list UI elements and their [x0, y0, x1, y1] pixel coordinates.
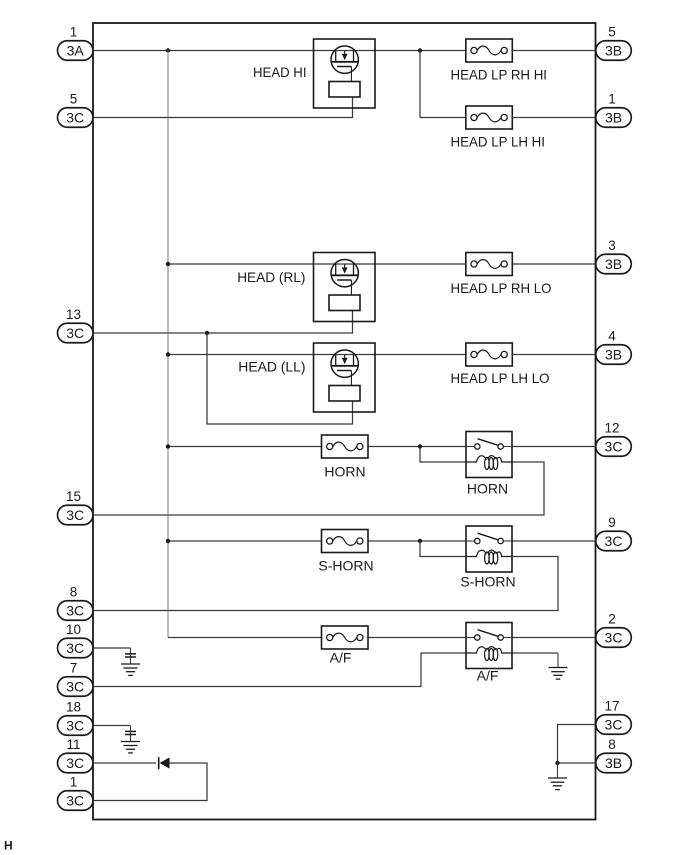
svg-text:3B: 3B — [605, 43, 622, 59]
svg-text:8: 8 — [70, 584, 78, 599]
wire A/F fuse to relay — [368, 637, 466, 639]
svg-text:A/F: A/F — [477, 668, 499, 684]
terminal 3B pin 5 — [596, 24, 632, 60]
svg-text:S-HORN: S-HORN — [318, 558, 373, 574]
fuse A/F — [322, 626, 369, 666]
svg-text:3C: 3C — [66, 325, 84, 341]
terminal 3C pin 18 — [58, 699, 94, 735]
svg-text:15: 15 — [66, 489, 81, 504]
svg-text:3B: 3B — [605, 256, 622, 272]
svg-text:17: 17 — [604, 698, 619, 713]
node bus tap HEAD RL — [166, 262, 170, 266]
wire vertical bus from 3A feed — [167, 51, 169, 638]
svg-text:3C: 3C — [66, 603, 84, 619]
svg-text:5: 5 — [70, 91, 78, 106]
wire fuse RH HI to terminal 5 3B — [512, 50, 596, 52]
wire HEAD HI coil return to terminal 5 3C — [93, 97, 353, 118]
diode D1 — [159, 757, 170, 769]
node fuse branch tap — [418, 48, 422, 52]
wire HORN fuse to relay — [368, 446, 466, 448]
wire terminal 11 3C to diode — [93, 762, 156, 764]
svg-text:HEAD (RL): HEAD (RL) — [237, 269, 305, 285]
terminal 3C pin 12 — [596, 420, 632, 456]
wire HORN relay to terminal 12 3C — [512, 446, 596, 448]
svg-text:3C: 3C — [66, 755, 84, 771]
fuse S-HORN — [318, 530, 373, 574]
fuse HEAD LP RH LO — [451, 253, 552, 297]
wire S-HORN coil feed — [420, 541, 466, 557]
svg-text:3A: 3A — [67, 43, 85, 59]
wire terminal 18 3C to ground — [93, 725, 131, 727]
svg-text:3C: 3C — [66, 718, 84, 734]
ground terminal 18 — [121, 726, 140, 753]
svg-text:13: 13 — [66, 307, 81, 322]
relay HORN — [466, 432, 512, 478]
wire HEAD RL row — [168, 263, 466, 265]
svg-text:9: 9 — [608, 515, 616, 530]
ground A/F relay coil — [549, 653, 568, 679]
svg-text:S-HORN: S-HORN — [460, 574, 515, 590]
wire A/F coil feed from terminal 7 3C — [93, 653, 466, 687]
svg-text:3C: 3C — [66, 640, 84, 656]
wire A/F coil return to ground — [512, 652, 558, 654]
svg-text:3B: 3B — [605, 347, 622, 363]
terminal 3C pin 1b — [58, 774, 94, 810]
wire bus to S-HORN fuse — [168, 540, 322, 542]
svg-text:18: 18 — [66, 699, 81, 714]
svg-text:5: 5 — [608, 24, 616, 39]
ground terminal 10 — [121, 648, 140, 675]
wire terminal 13 3C to HEAD RL coil — [93, 311, 353, 334]
wire terminal 8 3B to ground node — [558, 762, 596, 764]
wire fuse RH LO to terminal 3 3B — [512, 263, 596, 265]
relay box border frame — [93, 23, 596, 820]
semiconductor relay HEAD (LL) — [314, 343, 376, 412]
svg-text:3C: 3C — [605, 630, 623, 646]
svg-text:HEAD (LL): HEAD (LL) — [238, 359, 305, 375]
semiconductor relay HEAD HI — [314, 39, 376, 108]
wire terminal 17 3C to ground node — [558, 725, 596, 764]
terminal 3C pin 17 — [596, 698, 632, 734]
node HORN coil tap — [418, 444, 422, 448]
svg-text:3C: 3C — [605, 533, 623, 549]
terminal 3B pin 8 — [596, 737, 632, 773]
wire HORN coil return to terminal 15 3C — [93, 462, 544, 515]
terminal 3C pin 11 — [58, 737, 94, 773]
wire LH HI fuse row — [420, 117, 466, 119]
svg-text:3C: 3C — [66, 507, 84, 523]
fuse HORN — [322, 435, 369, 480]
terminal 3C pin 15 — [58, 489, 94, 525]
fuse HEAD LP LH HI — [451, 106, 546, 150]
terminal 3C pin 8 — [58, 584, 94, 620]
svg-text:HEAD LP LH HI: HEAD LP LH HI — [451, 134, 546, 150]
svg-text:HEAD HI: HEAD HI — [253, 64, 307, 80]
svg-text:8: 8 — [608, 737, 616, 752]
wire fuse LH LO to terminal 4 3B — [512, 354, 596, 356]
svg-text:2: 2 — [608, 611, 616, 626]
fuse HEAD LP LH LO — [451, 343, 550, 386]
node bus tap at 3A feed — [166, 48, 170, 52]
terminal 3A pin 1 — [58, 24, 94, 60]
node bus tap HEAD LL — [166, 352, 170, 356]
node ground tie — [555, 761, 559, 765]
semiconductor relay HEAD (RL) — [314, 253, 376, 322]
wire S-HORN coil return to terminal 8 3C — [93, 557, 558, 611]
svg-text:H: H — [4, 839, 13, 853]
terminal 3C pin 13 — [58, 307, 94, 343]
wire S-HORN relay to terminal 9 3C — [512, 540, 596, 542]
wire HORN coil feed — [420, 447, 466, 463]
svg-text:HEAD LP RH HI: HEAD LP RH HI — [451, 67, 548, 83]
wire HEAD LL row — [168, 354, 466, 356]
node bus tap S-HORN — [166, 539, 170, 543]
relay A/F — [466, 623, 512, 669]
svg-text:3C: 3C — [605, 439, 623, 455]
fuse HEAD LP RH HI — [451, 39, 548, 83]
terminal 3C pin 9 — [596, 515, 632, 551]
svg-text:HEAD LP LH LO: HEAD LP LH LO — [451, 370, 550, 386]
svg-text:1: 1 — [70, 24, 78, 39]
wire diode to terminal 1 3C loop — [93, 763, 207, 801]
wire fuse LH HI to terminal 1 3B — [512, 117, 596, 119]
svg-text:7: 7 — [70, 660, 78, 675]
terminal 3C pin 7 — [58, 660, 94, 696]
svg-text:3C: 3C — [66, 793, 84, 809]
svg-text:HORN: HORN — [324, 464, 365, 480]
wire S-HORN fuse to relay — [368, 540, 466, 542]
wire 3A feed to HEAD HI and HEAD LP RH HI fuse — [93, 50, 466, 52]
svg-text:3C: 3C — [66, 679, 84, 695]
wire branch to HEAD LL coil — [207, 333, 353, 424]
wire bus to HORN fuse — [168, 446, 322, 448]
svg-text:1: 1 — [70, 774, 78, 789]
wire branch down to HEAD LP LH HI fuse — [419, 51, 421, 118]
svg-text:3B: 3B — [605, 755, 622, 771]
terminal 3B pin 1 — [596, 91, 632, 127]
node bus tap HORN — [166, 444, 170, 448]
svg-text:HEAD LP RH LO: HEAD LP RH LO — [451, 280, 552, 296]
terminal 3C pin 10 — [58, 622, 94, 658]
svg-text:3C: 3C — [605, 717, 623, 733]
wire bus to A/F fuse — [168, 637, 322, 639]
svg-text:A/F: A/F — [330, 650, 352, 666]
svg-text:4: 4 — [608, 328, 616, 343]
svg-text:11: 11 — [66, 737, 80, 752]
relay S-HORN — [466, 526, 512, 572]
svg-text:3B: 3B — [605, 110, 622, 126]
node S-HORN coil tap — [418, 539, 422, 543]
terminal 3C pin 2 — [596, 611, 632, 647]
svg-text:3: 3 — [608, 238, 616, 253]
wire A/F relay to terminal 2 3C — [512, 637, 596, 639]
ground terminal 17 and 8 — [548, 763, 567, 790]
svg-text:HORN: HORN — [467, 481, 508, 497]
terminal 3B pin 3 — [596, 238, 632, 274]
svg-text:1: 1 — [608, 91, 616, 106]
svg-text:12: 12 — [604, 420, 619, 435]
svg-text:10: 10 — [66, 622, 81, 637]
node branch to HEAD LL coil — [205, 331, 209, 335]
terminal 3B pin 4 — [596, 328, 632, 364]
wire terminal 10 3C to ground — [93, 647, 131, 649]
svg-text:3C: 3C — [66, 110, 84, 126]
terminal 3C pin 5 — [58, 91, 94, 127]
